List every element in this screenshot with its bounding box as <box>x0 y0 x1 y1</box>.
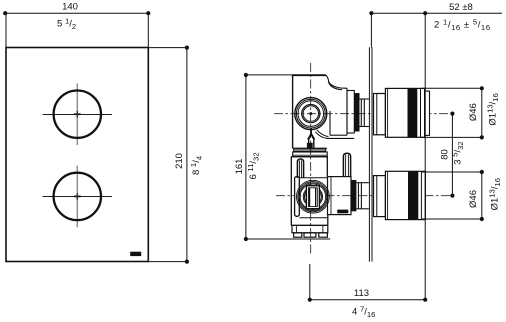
stop screw pin left <box>297 159 303 178</box>
dimension d46 bottom handle <box>421 172 482 219</box>
dimension 210 right of plate <box>148 48 187 262</box>
dimension 52 +/-8 top <box>371 13 502 300</box>
dimension 161 vertical <box>246 75 330 239</box>
svg-text:210: 210 <box>174 153 185 169</box>
foot block 1 <box>294 233 302 237</box>
top unit body outline <box>293 75 355 148</box>
top handle cylinder <box>385 88 424 137</box>
top unit cartridge step <box>347 91 354 134</box>
svg-text:161: 161 <box>234 159 245 175</box>
dimension d46 top handle <box>421 88 482 137</box>
pointer base <box>307 143 313 148</box>
top handle skirt <box>374 94 386 135</box>
bottom handle cylinder <box>385 171 425 219</box>
dimension 140 top <box>6 13 148 47</box>
top handle joint line <box>420 88 422 137</box>
thread hatch <box>337 210 348 214</box>
svg-text:Ø46: Ø46 <box>468 103 479 121</box>
top handle inner line <box>387 88 389 137</box>
bottom unit upper ledge <box>300 177 328 179</box>
volume control spring rings <box>297 180 330 213</box>
front wall plate outline <box>6 48 148 262</box>
bottom unit black collar <box>351 180 356 211</box>
foot inner verticals <box>295 225 297 232</box>
bottom knob circle <box>54 173 101 220</box>
bottom cartridge inner line <box>330 177 332 215</box>
horizontal centerline bottom unit <box>276 195 452 197</box>
foot block 2 <box>304 233 316 237</box>
bottom handle inner line <box>387 171 389 219</box>
top knob circle <box>54 91 101 138</box>
bracket in front of rings <box>295 177 300 217</box>
bottom unit lower ledge <box>300 217 328 219</box>
top handle cap <box>425 91 430 135</box>
middle step band inner line <box>293 154 328 156</box>
pipe stud right <box>343 153 350 176</box>
bottom handle grip band <box>408 171 418 219</box>
middle step band <box>293 152 328 157</box>
broach slot lines <box>309 188 311 207</box>
dimension 80 between centers <box>451 114 453 196</box>
front plate centerline cross top knob <box>43 84 113 146</box>
AXOR logo on plate <box>130 252 141 256</box>
dimension 113 bottom <box>310 264 425 300</box>
bottom unit sleeve to wall <box>356 183 369 209</box>
temperature pointer arrow <box>308 128 314 148</box>
bottom handle skirt <box>374 176 386 217</box>
thermostat face circles <box>295 98 327 130</box>
top unit bottom edge <box>293 147 327 149</box>
top unit sleeve to wall <box>360 99 369 127</box>
volume control square broach <box>306 186 319 209</box>
wall plate side view <box>369 47 372 261</box>
top handle grip band <box>408 88 418 137</box>
top unit black collar <box>354 93 359 132</box>
svg-text:113: 113 <box>354 288 369 299</box>
front plate centerline cross bottom knob <box>43 166 113 228</box>
vertical centerline of valve <box>310 63 312 254</box>
svg-text:Ø46: Ø46 <box>468 190 479 208</box>
svg-text:140: 140 <box>62 2 78 13</box>
bottom handle joint line <box>420 171 422 219</box>
bottom cartridge housing <box>328 177 352 215</box>
horizontal centerline top unit <box>274 113 452 115</box>
svg-text:80: 80 <box>439 149 450 160</box>
svg-text:52 ±8: 52 ±8 <box>449 2 473 13</box>
foot block 3 <box>319 233 328 237</box>
bottom foot <box>292 225 328 232</box>
bottom unit body outline <box>291 157 328 226</box>
middle flange band <box>294 149 326 151</box>
